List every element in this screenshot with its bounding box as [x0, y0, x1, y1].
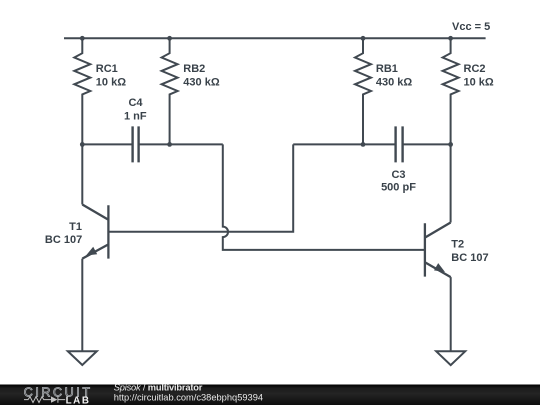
svg-text:Vcc = 5: Vcc = 5: [452, 21, 490, 33]
footer banner: [0, 385, 540, 405]
wire Vcc rail: [64, 37, 486, 39]
wire T1 emitter to ground: [81, 259, 83, 352]
svg-text:LAB: LAB: [66, 395, 91, 405]
junction node B RB2: [167, 142, 172, 147]
wire T1 base to corner up: [108, 144, 293, 231]
transistor T2 emitter arrow: [434, 263, 445, 272]
logo squiggle resistor-diode: [24, 396, 65, 402]
svg-text:10 kΩ: 10 kΩ: [464, 76, 494, 88]
capacitor C4: [133, 126, 139, 162]
transistor T1 emitter arrow: [86, 247, 97, 256]
svg-text:430 kΩ: 430 kΩ: [183, 76, 220, 88]
wire RB2 node to T2 base with hop: [223, 144, 425, 250]
svg-text:10 kΩ: 10 kΩ: [96, 76, 126, 88]
svg-text:1 nF: 1 nF: [124, 110, 147, 122]
svg-text:Spisok / multivibrator: Spisok / multivibrator: [114, 382, 203, 392]
svg-text:BC 107: BC 107: [451, 252, 488, 264]
wire C3 right plate to node D: [403, 143, 451, 145]
junction rail-RB2: [167, 36, 172, 41]
svg-text:RC2: RC2: [464, 63, 486, 75]
svg-text:RC1: RC1: [96, 63, 118, 75]
resistor RB1: [355, 38, 371, 144]
wire T1 collector: [81, 144, 83, 204]
svg-text:RB2: RB2: [183, 63, 205, 75]
wire node A to C4 left plate: [82, 143, 132, 145]
svg-text:T2: T2: [451, 239, 464, 251]
resistor RB2: [162, 38, 178, 144]
svg-text:500 pF: 500 pF: [381, 182, 416, 194]
resistor RC2: [443, 38, 459, 144]
ground G1: [68, 351, 97, 365]
capacitor C3: [396, 126, 403, 162]
junction rail-RC1: [80, 36, 85, 41]
transistor T1: [82, 205, 108, 259]
junction node D RC2: [448, 142, 453, 147]
svg-text:http://circuitlab.com/c38ebphq: http://circuitlab.com/c38ebphq59394: [114, 393, 263, 403]
wire T2 collector: [450, 144, 452, 222]
wire T2 emitter to ground: [450, 277, 452, 351]
svg-text:C4: C4: [128, 97, 143, 109]
transistor T2: [425, 223, 451, 278]
junction node A: [80, 142, 85, 147]
svg-text:T1: T1: [69, 221, 82, 233]
junction rail-RB1: [361, 36, 366, 41]
resistor RC1: [74, 38, 90, 144]
junction node C RB1: [361, 142, 366, 147]
wire C4 right plate to corner: [139, 143, 223, 145]
svg-text:C3: C3: [391, 169, 405, 181]
ground G2: [436, 351, 465, 365]
junction rail-RC2: [448, 36, 453, 41]
svg-text:RB1: RB1: [376, 63, 398, 75]
wire corner to C3 left plate: [293, 143, 395, 145]
svg-text:430 kΩ: 430 kΩ: [376, 76, 413, 88]
svg-text:BC 107: BC 107: [45, 234, 82, 246]
